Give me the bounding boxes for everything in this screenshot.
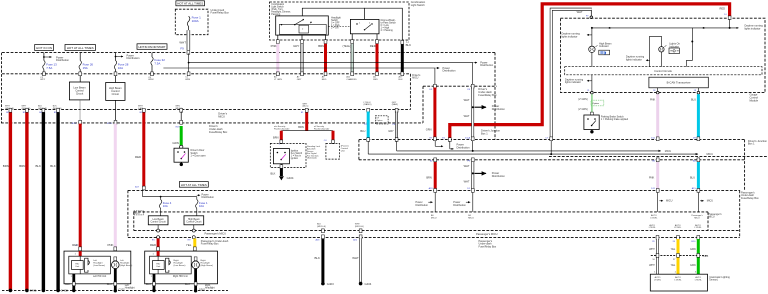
svg-text:PNK: PNK	[108, 243, 114, 247]
svg-text:C485: C485	[703, 255, 709, 258]
svg-text:E7-1: E7-1	[72, 123, 77, 125]
WHT link feed stub	[185, 53, 190, 81]
PNK wire mid segment	[649, 158, 673, 219]
wire SW2 top jog to BLK	[365, 8, 403, 43]
HOT IN ON OR START label box	[137, 44, 167, 50]
svg-text:7.5A: 7.5A	[154, 61, 160, 65]
under-hood small fuse box (dashed)	[175, 8, 229, 35]
svg-text:LT/DRL: LT/DRL	[674, 227, 682, 229]
svg-text:MICU: MICU	[412, 77, 418, 80]
svg-text:WHT: WHT	[352, 256, 359, 260]
high beam indicator lamp	[589, 28, 612, 67]
battery wire BRN 2 / ground G401	[19, 106, 37, 293]
left bulb ground BLK	[107, 269, 125, 293]
dimmer/passing switch SW2	[350, 19, 396, 34]
svg-text:Box 1: Box 1	[748, 142, 755, 146]
svg-text:HOT IN ON OR START: HOT IN ON OR START	[139, 45, 166, 49]
svg-text:Fuse/Relay Box: Fuse/Relay Box	[741, 197, 759, 200]
svg-text:2 = ON: 2 = ON	[331, 27, 339, 29]
parking brake switch	[584, 115, 629, 134]
passenger box left edge	[127, 190, 129, 237]
wire RED comb switch 1	[318, 35, 327, 81]
junction box lower bus B	[359, 159, 745, 161]
control circuits dashed box	[565, 67, 762, 75]
BAT RED wire to passenger box	[135, 106, 145, 190]
RED wire mid segment	[416, 158, 437, 219]
under-hood fuse/relay box top bus	[2, 52, 495, 54]
svg-text:BLK: BLK	[406, 43, 412, 47]
ignition ground BLK wire	[270, 164, 293, 181]
BLU gauge wire upper	[691, 94, 700, 141]
power distribution stubs below junction bus	[435, 141, 470, 149]
daytime running arrow mid	[626, 56, 650, 62]
passenger MICU bottom bus	[134, 230, 740, 232]
svg-text:Left HID Unit: Left HID Unit	[93, 275, 107, 278]
left high beam bulb	[112, 257, 133, 269]
flasher branch RED wire	[324, 131, 335, 144]
svg-text:PNK: PNK	[649, 175, 655, 179]
WHT ground wire from MICU	[352, 224, 372, 286]
svg-text:lights indicator: lights indicator	[565, 81, 581, 84]
svg-text:G401: G401	[30, 288, 37, 292]
ground wire BLK 4 / ground G402	[50, 106, 68, 293]
svg-text:CHAMOIS: CHAMOIS	[346, 78, 357, 81]
gauge internal feed line	[591, 25, 763, 31]
junction box lower bus A	[549, 155, 768, 157]
B-CAN transceiver	[649, 77, 708, 88]
svg-text:Distribution: Distribution	[443, 69, 457, 73]
WHT wire mid segment	[453, 158, 505, 219]
svg-text:(2' GRN): (2' GRN)	[578, 108, 588, 111]
driver's under-dash box top bus	[423, 85, 497, 87]
svg-text:MICU: MICU	[707, 200, 714, 203]
under-hood box left edge	[1, 53, 3, 123]
svg-text:RED: RED	[322, 79, 327, 81]
svg-text:MICU: MICU	[665, 150, 672, 153]
gauge red terminal	[728, 16, 731, 28]
svg-text:WHT: WHT	[649, 248, 655, 251]
security chime dashed box	[326, 143, 349, 159]
high beam PNK wire to left headlight bulb	[108, 124, 117, 258]
inline connector C485	[651, 254, 707, 256]
svg-text:WHT: WHT	[649, 264, 655, 267]
svg-text:LT/DRL: LT/DRL	[695, 280, 703, 282]
svg-text:Distribution: Distribution	[416, 204, 429, 207]
driver's MICU top bus	[1, 109, 410, 111]
gauge right vertical	[686, 28, 693, 67]
passenger box right edge	[739, 190, 741, 237]
driver's junction box top bus	[359, 139, 745, 141]
svg-text:WHT: WHT	[179, 41, 186, 45]
svg-text:MICU: MICU	[135, 213, 141, 215]
svg-text:Circuit: Circuit	[112, 92, 120, 96]
svg-text:LT/DRL: LT/DRL	[674, 280, 682, 282]
svg-text:BLU: BLU	[690, 175, 695, 179]
right high beam bulb	[192, 257, 213, 269]
svg-text:Unit: Unit	[156, 265, 160, 268]
fuse 13 column	[40, 53, 69, 82]
svg-text:(ACC): (ACC)	[303, 105, 309, 108]
svg-text:B-CAN Transceiver: B-CAN Transceiver	[667, 81, 691, 85]
svg-text:10A: 10A	[199, 204, 204, 208]
low beam control circuit passenger	[148, 216, 168, 225]
svg-text:(High Beam): (High Beam)	[201, 265, 214, 267]
micu sub dashed box	[134, 211, 144, 215]
sensor GRN wire	[690, 224, 709, 274]
svg-text:BRN: BRN	[426, 175, 432, 179]
svg-text:Circuit: Circuit	[76, 91, 84, 95]
lights on indicator lamp	[650, 36, 681, 66]
ignition branch RED wire	[273, 131, 283, 146]
svg-text:(NAVI): (NAVI)	[392, 103, 398, 106]
svg-text:WHT: WHT	[464, 98, 470, 102]
svg-text:BLK: BLK	[185, 282, 190, 286]
svg-text:HOT AT ALL TIMES: HOT AT ALL TIMES	[67, 46, 94, 50]
svg-text:(2' GRN): (2' GRN)	[578, 98, 588, 101]
svg-text:LT/DRL: LT/DRL	[650, 217, 658, 219]
svg-text:G402: G402	[61, 288, 68, 292]
combination light switch dashed box	[270, 0, 426, 40]
under-dash box right edge	[494, 53, 496, 140]
fuse 4	[159, 197, 171, 216]
svg-text:Connector: Connector	[376, 121, 386, 124]
svg-text:RED: RED	[370, 44, 376, 48]
BLK ground wire from MICU	[315, 224, 335, 286]
svg-text:BRN: BRN	[298, 125, 304, 129]
svg-text:(Solenoid): (Solenoid)	[307, 158, 317, 160]
svg-text:1 = Door open: 1 = Door open	[191, 154, 207, 157]
under-hood fuse/relay box bottom bus	[2, 73, 410, 75]
svg-text:Distribution: Distribution	[480, 63, 494, 67]
svg-text:MICU: MICU	[666, 200, 673, 203]
svg-text:BLK: BLK	[270, 171, 275, 175]
fuse 32 column	[148, 53, 165, 82]
svg-text:WFB: WFB	[185, 79, 190, 81]
ignition key light dashed box	[270, 143, 306, 167]
ground bus dashed	[2, 289, 228, 291]
wire BLK comb switch	[399, 39, 412, 81]
svg-text:BLK: BLK	[315, 256, 321, 260]
automatic lighting sensor box	[650, 274, 730, 291]
svg-text:GRN: GRN	[172, 141, 178, 145]
wire PNK comb switch	[271, 35, 283, 81]
high beam control circuit passenger	[184, 216, 204, 225]
svg-text:Distribution: Distribution	[492, 174, 506, 178]
svg-text:RED: RED	[150, 243, 156, 247]
junction box left edge	[358, 140, 360, 160]
svg-text:YEL: YEL	[671, 248, 676, 251]
svg-text:GRY: GRY	[293, 44, 299, 48]
ground wire BLK 3	[36, 106, 48, 293]
svg-text:Distribution: Distribution	[56, 58, 70, 62]
HOT IN ON label box	[35, 45, 54, 51]
low beam output RED wire to right headlight	[150, 225, 160, 251]
svg-text:GRN: GRN	[690, 248, 696, 251]
MICU collector line S3	[397, 141, 672, 153]
svg-text:G403: G403	[327, 282, 334, 286]
svg-text:WHT: WHT	[464, 164, 470, 168]
svg-text:BRN: BRN	[19, 164, 25, 168]
driver's door switch	[174, 148, 206, 166]
turn signal RED feed wire	[298, 103, 308, 130]
svg-text:G404: G404	[365, 282, 372, 286]
svg-text:lights indicator: lights indicator	[626, 59, 642, 62]
fuse 26 column / low beam control circuit	[69, 53, 93, 126]
wire RED comb switch 2	[370, 34, 379, 81]
HOT AT ALL TIMES label box	[65, 45, 95, 51]
svg-text:15A: 15A	[83, 66, 88, 70]
svg-text:GRY: GRY	[388, 129, 394, 133]
option connector dashed box	[375, 116, 388, 125]
left HID ground BLK	[65, 274, 75, 292]
svg-text:WHT: WHT	[577, 10, 583, 14]
svg-text:MICU: MICU	[707, 153, 714, 156]
MICU collector line S4	[368, 141, 713, 156]
svg-text:7.5A: 7.5A	[46, 66, 52, 70]
svg-text:D1-A: D1-A	[465, 136, 471, 139]
wire SW1 top stub	[302, 8, 364, 16]
svg-text:Sensor): Sensor)	[709, 278, 718, 281]
svg-text:Indicator: Indicator	[599, 45, 609, 48]
svg-text:MICU: MICU	[468, 217, 474, 219]
svg-text:Passenger's MICU: Passenger's MICU	[476, 232, 498, 236]
svg-text:BLK: BLK	[50, 164, 56, 168]
svg-text:YEL: YEL	[671, 264, 676, 267]
svg-text:MICU: MICU	[431, 217, 437, 219]
svg-text:Fuse/Relay Box: Fuse/Relay Box	[479, 245, 497, 248]
svg-text:Option: Option	[593, 102, 600, 105]
dashed link SW1-SW2	[328, 26, 350, 28]
svg-text:Module: Module	[750, 98, 759, 102]
svg-text:(MICU-E): (MICU-E)	[317, 226, 326, 228]
RED wire in driver's under-dash box	[426, 84, 437, 140]
svg-text:HOT AT ALL TIMES: HOT AT ALL TIMES	[181, 183, 207, 187]
BLU option wire	[360, 102, 371, 142]
svg-text:Distribution: Distribution	[453, 204, 466, 207]
gauge bottom terminals	[587, 75, 700, 94]
svg-text:MICU: MICU	[709, 216, 715, 219]
left HID unit box	[64, 251, 131, 284]
svg-text:(High Beam): (High Beam)	[120, 265, 133, 267]
svg-text:Unit: Unit	[341, 149, 345, 152]
passenger MICU top bus	[134, 211, 708, 213]
power distribution feed line 1	[189, 60, 494, 85]
fuse 1 passenger	[196, 197, 208, 216]
svg-text:BLK: BLK	[146, 282, 151, 286]
svg-text:Control Circuits: Control Circuits	[654, 69, 672, 73]
passenger under-dash box top bus	[128, 189, 740, 191]
passenger MICU right edge	[707, 212, 709, 231]
svg-text:BLK: BLK	[36, 164, 42, 168]
svg-text:(TEAL): (TEAL)	[342, 44, 351, 48]
svg-text:GRN: GRN	[426, 127, 432, 131]
fuse 1 100A (main)	[187, 16, 201, 27]
svg-text:LT GRN: LT GRN	[274, 79, 282, 81]
svg-text:F9: F9	[180, 46, 184, 50]
driver's under-dash box left edge	[422, 86, 424, 123]
parking brake GRN wire	[578, 94, 604, 116]
svg-text:Unit: Unit	[75, 265, 79, 268]
svg-text:Distribution: Distribution	[457, 145, 471, 149]
svg-text:HOT AT ALL TIMES: HOT AT ALL TIMES	[177, 2, 203, 6]
main RED power route to gauge	[442, 4, 729, 142]
svg-text:Flasher-Sounder: Flasher-Sounder	[274, 128, 290, 131]
svg-text:PNK: PNK	[650, 98, 656, 102]
svg-text:LT/DRL: LT/DRL	[649, 227, 657, 229]
svg-text:(RADIO): (RADIO)	[364, 103, 372, 106]
connector edge	[409, 74, 411, 110]
wire GRY comb switch	[293, 35, 303, 81]
svg-text:HOT IN ON: HOT IN ON	[36, 46, 52, 50]
svg-text:YEL: YEL	[186, 243, 192, 247]
svg-text:WHT: WHT	[464, 180, 470, 184]
svg-text:Distribution: Distribution	[127, 56, 141, 60]
svg-text:lights indicator: lights indicator	[562, 35, 578, 38]
svg-text:lights indicator: lights indicator	[745, 27, 761, 30]
svg-text:Flasher-Sounder: Flasher-Sounder	[314, 128, 330, 131]
svg-text:100A: 100A	[192, 19, 199, 23]
svg-text:BLK: BLK	[399, 79, 404, 81]
daytime running lights arrow left	[562, 33, 592, 39]
svg-text:RED: RED	[720, 6, 726, 10]
high beam output YEL wire to right headlight	[186, 225, 196, 258]
svg-text:2 = Passing: 2 = Passing	[381, 30, 394, 32]
WHT fusible link wire	[179, 30, 189, 54]
svg-text:Fuse/Relay Box: Fuse/Relay Box	[478, 93, 497, 97]
HOT AT ALL TIMES top label box	[176, 1, 205, 6]
svg-text:ignition: ignition	[291, 157, 299, 160]
door switch GRN wire	[172, 106, 183, 149]
daytime running arrow lower-left	[565, 78, 592, 84]
wire split bar	[281, 130, 333, 132]
text column anti-theft note	[307, 145, 321, 160]
svg-text:(Low Beam): (Low Beam)	[93, 265, 105, 267]
svg-text:BLK: BLK	[107, 282, 112, 286]
svg-text:BRN: BRN	[3, 164, 9, 168]
svg-text:Fuse/Relay Box: Fuse/Relay Box	[211, 11, 230, 15]
svg-text:GRY: GRY	[297, 79, 302, 81]
svg-text:Light Switch: Light Switch	[411, 3, 426, 7]
svg-text:LT/DRL: LT/DRL	[694, 227, 702, 229]
svg-text:G404: G404	[287, 176, 294, 180]
svg-text:Distribution: Distribution	[492, 107, 506, 111]
svg-text:LT/DRL: LT/DRL	[654, 280, 662, 282]
svg-text:Right HID Unit: Right HID Unit	[173, 275, 188, 278]
low beam RED wire to left headlight	[72, 124, 81, 251]
fuse 28 column / high beam control circuit	[106, 53, 140, 126]
passenger box power feed line	[143, 190, 215, 199]
svg-text:E7-3: E7-3	[107, 123, 112, 125]
right bulb ground BLK	[185, 269, 206, 293]
junction box right edge	[744, 140, 746, 191]
svg-text:Headlight: Headlight	[125, 287, 135, 290]
HOT AT ALL TIMES lower-left label box	[179, 182, 208, 188]
BLU wire mid segment	[690, 158, 713, 219]
svg-text:RED: RED	[135, 155, 141, 159]
driver's fuse/relay box bus	[1, 122, 423, 124]
svg-text:BRN: BRN	[318, 44, 324, 48]
svg-text:PNK: PNK	[271, 44, 277, 48]
wire fuse to WHT	[188, 27, 190, 31]
svg-text:Passenger's MICU: Passenger's MICU	[205, 232, 227, 236]
svg-text:BLK: BLK	[65, 282, 70, 286]
svg-text:10A: 10A	[118, 66, 123, 70]
battery wire BRN 1	[3, 106, 14, 293]
svg-text:RED: RED	[373, 79, 378, 81]
svg-text:BLU: BLU	[360, 129, 365, 133]
wire TEAL comb switch	[342, 34, 357, 81]
svg-text:(MICU-E): (MICU-E)	[355, 226, 364, 228]
svg-text:BLU: BLU	[691, 98, 696, 102]
headlight switch SW1	[276, 16, 341, 35]
svg-text:BRN: BRN	[273, 136, 279, 140]
svg-text:Headlight: Headlight	[205, 287, 215, 290]
svg-text:Box 1: Box 1	[481, 131, 488, 135]
svg-text:Control Circuit: Control Circuit	[151, 221, 166, 224]
sensor WHT wire	[649, 224, 659, 274]
svg-text:1 = Parking brake applied: 1 = Parking brake applied	[601, 118, 629, 121]
WHT wire A upper	[464, 84, 506, 152]
passenger MICU left edge	[133, 212, 135, 231]
svg-text:WHT: WHT	[464, 114, 470, 118]
svg-text:WFM: WFM	[148, 79, 153, 81]
GRY option wire	[388, 102, 398, 142]
svg-text:Fuse/Relay Box: Fuse/Relay Box	[209, 130, 228, 134]
gauge control module dashed box	[561, 18, 766, 92]
sensor YEL wire	[671, 224, 683, 274]
svg-text:(Low Beam): (Low Beam)	[174, 265, 186, 267]
WHT wire B from gauge	[545, 9, 592, 155]
PNK gauge wire upper	[650, 94, 659, 141]
svg-text:Control Circuit: Control Circuit	[186, 221, 201, 224]
svg-text:GRN: GRN	[690, 264, 696, 267]
svg-text:10A: 10A	[163, 204, 168, 208]
svg-text:WFY: WFY	[40, 79, 45, 81]
svg-text:MICU: MICU	[694, 217, 700, 219]
ignition key switch	[273, 149, 302, 164]
power distribution feed line 2	[163, 66, 456, 85]
svg-text:Distribution: Distribution	[202, 196, 215, 199]
right HID unit box	[145, 251, 218, 284]
passenger under-dash box bottom bus	[128, 236, 740, 238]
svg-text:MICU: MICU	[218, 114, 225, 118]
svg-text:Fuse/Relay Box: Fuse/Relay Box	[201, 243, 219, 246]
right HID ground BLK	[146, 274, 156, 292]
